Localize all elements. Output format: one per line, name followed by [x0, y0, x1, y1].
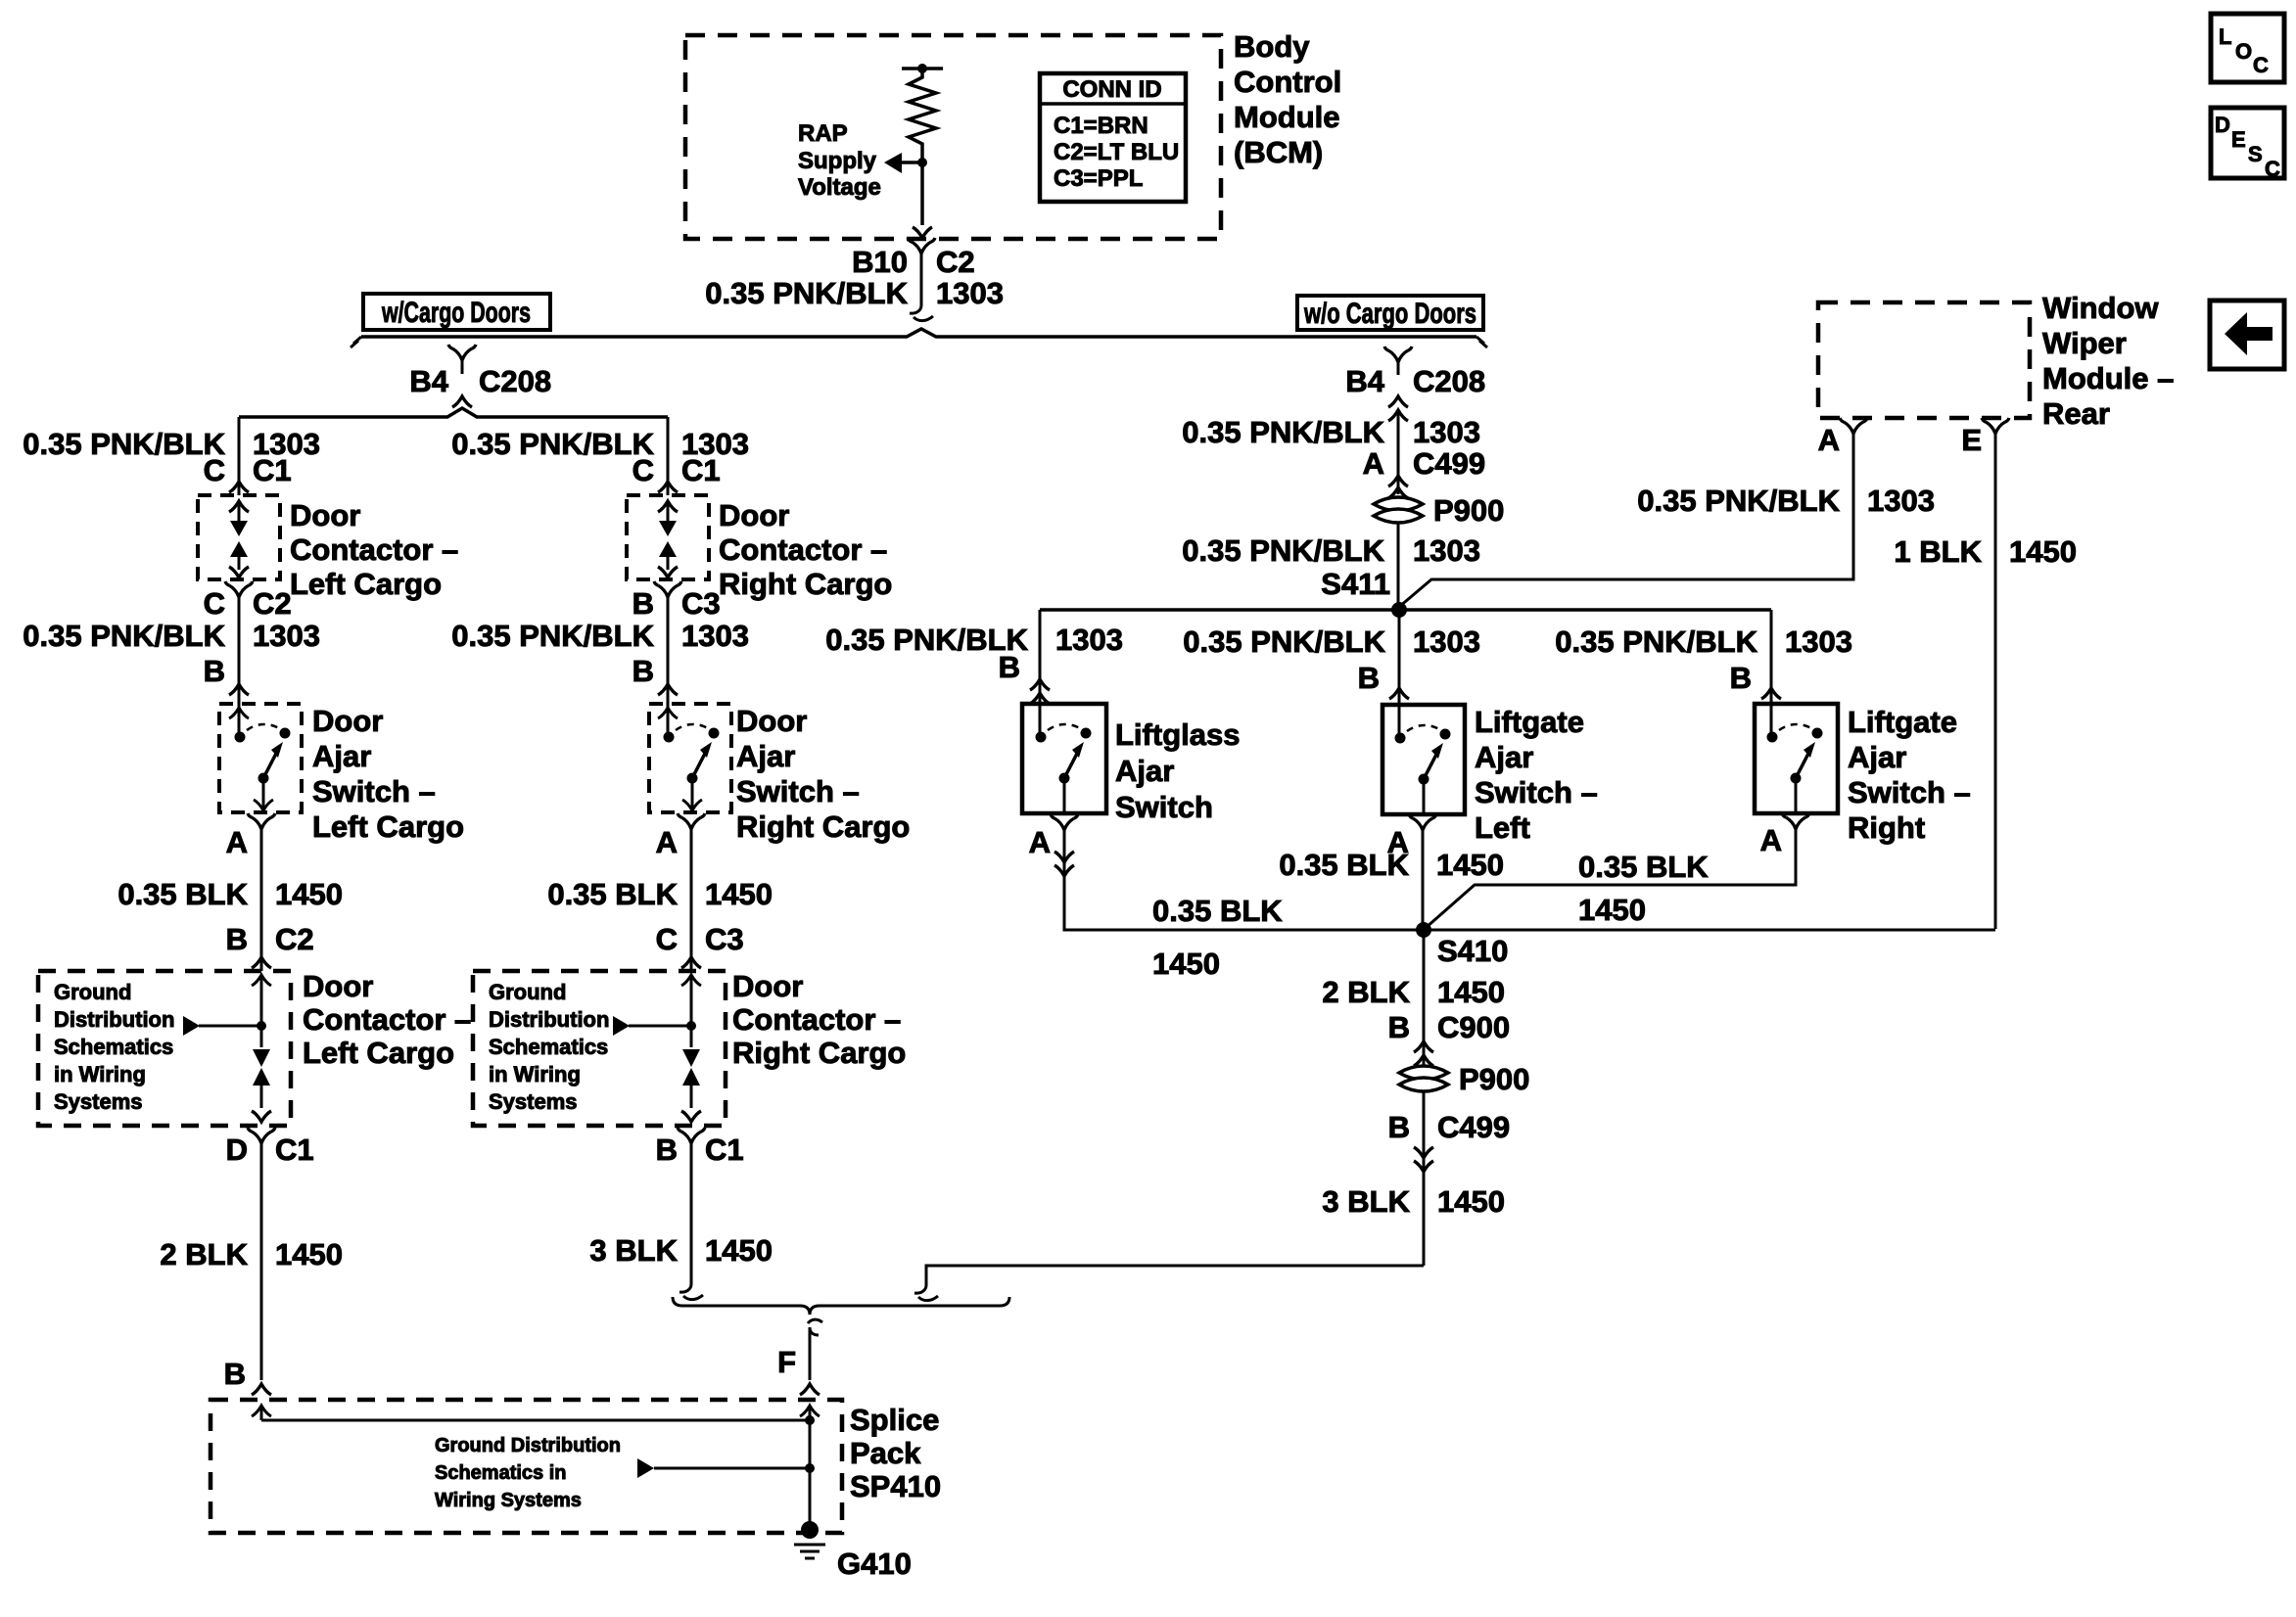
svg-text:C900: C900 [1437, 1010, 1510, 1044]
svg-text:B4: B4 [409, 364, 448, 398]
svg-text:1303: 1303 [1785, 624, 1852, 659]
svg-text:C2: C2 [275, 922, 314, 956]
svg-text:B4: B4 [1345, 364, 1384, 398]
svg-text:Ground: Ground [54, 980, 131, 1004]
svg-text:Left Cargo: Left Cargo [303, 1036, 454, 1070]
svg-text:1303: 1303 [1413, 415, 1480, 449]
svg-text:Door: Door [719, 498, 789, 532]
svg-text:C: C [2253, 53, 2269, 77]
svg-text:E: E [2231, 127, 2246, 152]
svg-text:C1: C1 [705, 1132, 744, 1167]
svg-text:C208: C208 [1413, 364, 1485, 398]
svg-text:1303: 1303 [1867, 484, 1935, 518]
svg-text:Liftglass: Liftglass [1115, 717, 1240, 752]
svg-text:A: A [656, 825, 678, 859]
svg-text:C1: C1 [681, 453, 721, 487]
svg-text:C: C [656, 922, 678, 956]
svg-text:Left Cargo: Left Cargo [312, 809, 464, 844]
svg-text:Ground: Ground [489, 980, 566, 1004]
svg-text:Right Cargo: Right Cargo [719, 567, 892, 601]
svg-text:1303: 1303 [681, 619, 749, 653]
svg-text:Schematics in: Schematics in [435, 1462, 567, 1484]
svg-text:C3=PPL: C3=PPL [1054, 165, 1143, 192]
svg-text:S411: S411 [1321, 567, 1390, 601]
svg-text:C: C [2265, 157, 2280, 181]
svg-text:0.35 PNK/BLK: 0.35 PNK/BLK [451, 427, 654, 461]
svg-text:1303: 1303 [1055, 623, 1123, 657]
svg-text:1 BLK: 1 BLK [1894, 534, 1982, 569]
svg-text:C499: C499 [1437, 1110, 1510, 1144]
svg-text:0.35 PNK/BLK: 0.35 PNK/BLK [1183, 624, 1385, 659]
svg-text:0.35 BLK: 0.35 BLK [1279, 848, 1409, 882]
svg-text:S410: S410 [1437, 934, 1508, 968]
svg-text:0.35 PNK/BLK: 0.35 PNK/BLK [23, 619, 225, 653]
svg-text:B: B [633, 586, 654, 621]
svg-text:Control: Control [1234, 65, 1341, 99]
svg-text:D: D [2215, 113, 2230, 137]
svg-text:C1: C1 [253, 453, 292, 487]
svg-text:Systems: Systems [54, 1089, 143, 1114]
svg-text:L: L [2219, 24, 2231, 49]
svg-text:B: B [1358, 661, 1380, 695]
svg-text:C1=BRN: C1=BRN [1054, 113, 1148, 139]
svg-text:w/o Cargo Doors: w/o Cargo Doors [1303, 298, 1476, 330]
svg-text:w/Cargo Doors: w/Cargo Doors [381, 297, 531, 329]
svg-text:0.35 PNK/BLK: 0.35 PNK/BLK [1182, 533, 1384, 568]
svg-text:Right Cargo: Right Cargo [732, 1036, 906, 1070]
svg-text:0.35 BLK: 0.35 BLK [1578, 850, 1709, 884]
svg-text:Body: Body [1234, 29, 1310, 64]
svg-text:O: O [2235, 39, 2252, 64]
svg-text:3 BLK: 3 BLK [1322, 1184, 1410, 1219]
svg-text:C: C [204, 586, 225, 621]
svg-text:P900: P900 [1459, 1062, 1529, 1096]
svg-text:Ajar: Ajar [736, 739, 795, 773]
svg-text:Liftgate: Liftgate [1848, 705, 1957, 739]
svg-text:Right: Right [1848, 810, 1925, 845]
svg-text:1450: 1450 [705, 877, 773, 911]
svg-text:A: A [1760, 823, 1782, 857]
svg-text:0.35 BLK: 0.35 BLK [1152, 894, 1283, 928]
svg-text:Ground Distribution: Ground Distribution [435, 1435, 621, 1456]
svg-text:Door: Door [736, 704, 807, 738]
svg-text:3 BLK: 3 BLK [589, 1233, 678, 1268]
svg-text:SP410: SP410 [850, 1469, 941, 1503]
svg-text:Ajar: Ajar [1475, 740, 1533, 774]
svg-text:C3: C3 [705, 922, 744, 956]
svg-text:Supply: Supply [798, 148, 877, 174]
svg-text:C2: C2 [253, 586, 292, 621]
svg-text:B: B [224, 1357, 246, 1391]
svg-text:Schematics: Schematics [54, 1035, 173, 1059]
svg-text:in Wiring: in Wiring [489, 1062, 581, 1086]
svg-text:1450: 1450 [275, 1237, 343, 1271]
svg-text:C499: C499 [1413, 446, 1485, 481]
svg-text:Ajar: Ajar [312, 739, 371, 773]
svg-text:F: F [777, 1345, 796, 1379]
svg-text:1450: 1450 [275, 877, 343, 911]
svg-text:Schematics: Schematics [489, 1035, 608, 1059]
svg-text:Right Cargo: Right Cargo [736, 809, 910, 844]
svg-text:Module –: Module – [2042, 361, 2174, 395]
svg-text:B: B [1730, 661, 1752, 695]
svg-text:Rear: Rear [2042, 396, 2110, 431]
svg-text:Wiring Systems: Wiring Systems [435, 1490, 582, 1511]
svg-text:0.35 PNK/BLK: 0.35 PNK/BLK [1555, 624, 1757, 659]
svg-text:Door: Door [312, 704, 383, 738]
svg-text:P900: P900 [1433, 493, 1504, 528]
svg-text:2 BLK: 2 BLK [160, 1237, 248, 1271]
svg-text:0.35 BLK: 0.35 BLK [547, 877, 678, 911]
svg-text:Switch –: Switch – [736, 774, 860, 808]
svg-text:Left Cargo: Left Cargo [290, 567, 442, 601]
svg-text:Door: Door [732, 969, 803, 1003]
svg-text:1450: 1450 [705, 1233, 773, 1268]
svg-text:Module: Module [1234, 100, 1340, 134]
svg-text:Switch –: Switch – [1848, 775, 1971, 809]
svg-text:Switch –: Switch – [1475, 775, 1598, 809]
svg-text:Contactor –: Contactor – [290, 532, 458, 567]
svg-text:1303: 1303 [1413, 624, 1480, 659]
svg-text:Switch: Switch [1115, 790, 1213, 824]
svg-text:C1: C1 [275, 1132, 314, 1167]
svg-text:CONN ID: CONN ID [1062, 76, 1161, 103]
svg-text:B: B [204, 654, 225, 688]
svg-text:1303: 1303 [1413, 533, 1480, 568]
svg-text:Switch –: Switch – [312, 774, 436, 808]
svg-text:Left: Left [1475, 810, 1530, 845]
svg-text:(BCM): (BCM) [1234, 135, 1323, 169]
svg-text:1450: 1450 [2009, 534, 2077, 569]
svg-text:Window: Window [2042, 291, 2159, 325]
svg-text:A: A [1363, 446, 1384, 481]
svg-text:Ajar: Ajar [1848, 740, 1906, 774]
svg-text:A: A [1029, 825, 1051, 859]
svg-text:in Wiring: in Wiring [54, 1062, 146, 1086]
svg-text:1450: 1450 [1436, 848, 1504, 882]
svg-text:Systems: Systems [489, 1089, 578, 1114]
svg-text:1450: 1450 [1152, 947, 1220, 981]
svg-text:Door: Door [290, 498, 360, 532]
svg-text:B: B [999, 650, 1020, 684]
svg-text:B: B [1388, 1010, 1410, 1044]
svg-text:D: D [226, 1132, 248, 1167]
svg-text:Liftgate: Liftgate [1475, 705, 1584, 739]
svg-text:0.35 PNK/BLK: 0.35 PNK/BLK [1182, 415, 1384, 449]
svg-text:C: C [633, 453, 654, 487]
svg-text:Contactor –: Contactor – [719, 532, 887, 567]
svg-text:Contactor –: Contactor – [732, 1002, 901, 1037]
svg-text:C3: C3 [681, 586, 721, 621]
svg-text:E: E [1961, 423, 1982, 457]
svg-text:A: A [1818, 423, 1840, 457]
svg-text:0.35 PNK/BLK: 0.35 PNK/BLK [1637, 484, 1840, 518]
svg-text:B: B [656, 1132, 678, 1167]
svg-text:B10: B10 [852, 245, 908, 279]
svg-text:Splice: Splice [850, 1403, 939, 1437]
svg-text:0.35 BLK: 0.35 BLK [117, 877, 248, 911]
svg-text:S: S [2248, 142, 2263, 166]
svg-text:B: B [633, 654, 654, 688]
svg-text:0.35 PNK/BLK: 0.35 PNK/BLK [705, 276, 908, 310]
svg-text:1450: 1450 [1578, 893, 1646, 927]
svg-text:C2: C2 [936, 245, 975, 279]
svg-text:Distribution: Distribution [54, 1007, 174, 1032]
svg-text:1303: 1303 [936, 276, 1004, 310]
svg-text:2 BLK: 2 BLK [1322, 975, 1410, 1009]
svg-text:C: C [204, 453, 225, 487]
svg-text:Pack: Pack [850, 1436, 921, 1470]
svg-text:Voltage: Voltage [798, 174, 881, 201]
svg-text:Door: Door [303, 969, 373, 1003]
svg-text:Distribution: Distribution [489, 1007, 609, 1032]
svg-text:0.35 PNK/BLK: 0.35 PNK/BLK [23, 427, 225, 461]
svg-text:0.35 PNK/BLK: 0.35 PNK/BLK [451, 619, 654, 653]
svg-text:C2=LT BLU: C2=LT BLU [1054, 139, 1179, 165]
svg-text:Ajar: Ajar [1115, 754, 1174, 788]
svg-text:Contactor –: Contactor – [303, 1002, 471, 1037]
svg-text:A: A [226, 825, 248, 859]
svg-text:B: B [226, 922, 248, 956]
svg-text:C208: C208 [479, 364, 551, 398]
svg-text:RAP: RAP [798, 120, 848, 147]
svg-text:Wiper: Wiper [2042, 326, 2127, 360]
svg-text:B: B [1388, 1110, 1410, 1144]
svg-text:1303: 1303 [253, 619, 320, 653]
svg-text:1450: 1450 [1437, 975, 1505, 1009]
svg-text:G410: G410 [837, 1547, 912, 1581]
svg-text:1450: 1450 [1437, 1184, 1505, 1219]
